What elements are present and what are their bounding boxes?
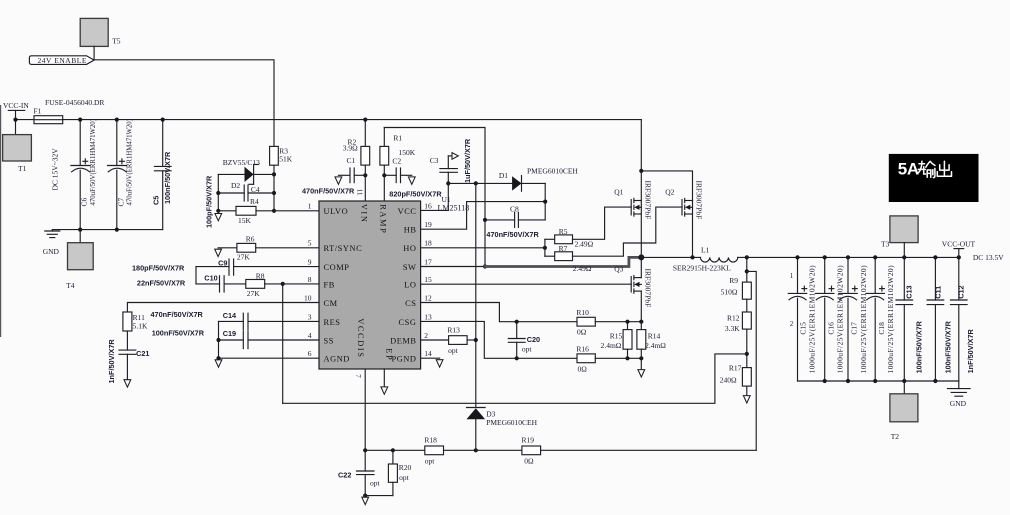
wire R9 divider column	[746, 257, 748, 282]
svg-text:R1: R1	[393, 134, 402, 143]
svg-text:SW: SW	[403, 263, 417, 272]
svg-text:2.4mΩ: 2.4mΩ	[601, 341, 622, 350]
svg-text:R9: R9	[729, 276, 738, 285]
junction C22 bottom	[363, 494, 367, 498]
svg-text:470nF/50V/X7R: 470nF/50V/X7R	[486, 230, 539, 239]
ground GND input	[43, 230, 60, 256]
wire R12 to R17	[746, 329, 748, 368]
ground arrow R6 left	[215, 249, 222, 256]
junction C1 node	[363, 173, 367, 177]
junction C4 left	[216, 191, 220, 195]
svg-text:C12: C12	[957, 285, 966, 298]
capacitor C10	[196, 274, 246, 292]
svg-text:510Ω: 510Ω	[721, 287, 738, 296]
wire AGND pin row	[219, 357, 320, 359]
ground arrow AGND	[215, 360, 222, 367]
junction R14 bottom	[639, 356, 643, 360]
svg-text:EP: EP	[384, 348, 393, 361]
junction VIN column at rail	[363, 118, 367, 122]
junction D3 anode	[474, 448, 478, 452]
transistor Q1 IRF3007PbF	[614, 181, 652, 258]
resistor R4	[218, 197, 274, 225]
svg-text:1uF/50V/X7R: 1uF/50V/X7R	[463, 138, 472, 183]
wire CM pin run	[127, 303, 319, 313]
junction Q3 source / R14 top	[639, 320, 643, 324]
junction C19 left	[216, 338, 220, 342]
svg-text:100nF/50V/X7R: 100nF/50V/X7R	[944, 320, 953, 373]
svg-text:IRF3007PbF: IRF3007PbF	[643, 269, 652, 308]
svg-text:1000uF/25V(ERR1EM102W20): 1000uF/25V(ERR1EM102W20)	[859, 265, 868, 373]
resistor R2	[343, 120, 370, 165]
wire D1 cathode to HB node	[544, 183, 546, 220]
capacitor C14	[219, 311, 320, 330]
svg-text:ULVO: ULVO	[324, 207, 349, 216]
capacitor C21	[107, 331, 150, 384]
wire FB tap run	[283, 354, 747, 403]
pad T4	[66, 230, 93, 290]
svg-text:240Ω: 240Ω	[720, 376, 737, 385]
sheet border fragment	[0, 105, 2, 337]
svg-text:D2: D2	[231, 181, 240, 190]
junction C8 left on SW riser	[483, 218, 487, 222]
capacitor C19	[219, 329, 320, 348]
svg-text:470uF/50V(ERR1HM471W20): 470uF/50V(ERR1HM471W20)	[126, 119, 133, 205]
junction SW node	[638, 254, 644, 260]
svg-text:IRF3007PbF: IRF3007PbF	[643, 181, 652, 220]
pin number labels left	[304, 201, 312, 358]
svg-text:D1: D1	[499, 171, 508, 180]
wire R3 bottom to ULVO node	[273, 165, 275, 211]
resistor R19	[522, 436, 757, 466]
svg-text:DC 15V~32V: DC 15V~32V	[51, 148, 60, 191]
svg-text:VIN: VIN	[360, 204, 369, 224]
junction Q1/Q2 drain split	[639, 169, 643, 173]
junction T2 stem	[902, 379, 906, 383]
ground arrow below R4 bus	[215, 211, 222, 221]
svg-text:R8: R8	[256, 271, 265, 280]
junction L1 output node	[745, 255, 749, 259]
junction C17 bottom	[846, 379, 850, 383]
junction FB tap	[745, 352, 749, 356]
capacitor C3	[421, 138, 472, 210]
svg-text:8: 8	[308, 275, 312, 284]
svg-text:100nF/50V/X7R: 100nF/50V/X7R	[163, 151, 172, 204]
svg-text:VCC-IN: VCC-IN	[3, 101, 29, 110]
svg-text:R6: R6	[246, 235, 255, 244]
diode D1 PMEG6010CEH	[499, 167, 579, 192]
svg-text:VCC-OUT: VCC-OUT	[942, 240, 976, 249]
ground arrow R17	[743, 386, 750, 403]
svg-text:1000uF/25V(ERR1EM102W20): 1000uF/25V(ERR1EM102W20)	[886, 265, 895, 373]
svg-text:DC 13.5V: DC 13.5V	[973, 253, 1004, 262]
svg-text:11: 11	[356, 189, 364, 196]
svg-text:C5: C5	[151, 196, 160, 205]
svg-text:VCC: VCC	[398, 207, 417, 216]
svg-text:R20: R20	[399, 463, 412, 472]
svg-text:3: 3	[308, 312, 312, 321]
svg-text:GND: GND	[950, 399, 967, 408]
svg-text:0Ω: 0Ω	[578, 364, 588, 373]
junction R15 bottom	[625, 356, 629, 360]
svg-text:Q1: Q1	[614, 187, 623, 196]
svg-text:15K: 15K	[238, 216, 252, 225]
svg-text:2.49Ω: 2.49Ω	[573, 264, 592, 273]
wire R2 to VIN pin	[364, 165, 366, 201]
resistor R8	[246, 271, 319, 298]
ground GND output	[948, 381, 971, 408]
resistor R16	[576, 344, 641, 373]
junction C17 top	[846, 255, 850, 259]
svg-text:100nF/50V/X7R: 100nF/50V/X7R	[914, 320, 923, 373]
svg-text:T4: T4	[66, 281, 75, 290]
junction C16 top	[823, 255, 827, 259]
ground arrow PGND	[436, 360, 443, 367]
svg-text:C17: C17	[850, 322, 859, 335]
junction C18 top	[873, 255, 877, 259]
junction C18 bottom	[873, 379, 877, 383]
wire CS pin run	[421, 303, 577, 322]
capacitor C7	[108, 119, 134, 230]
node VCC-IN	[3, 101, 29, 135]
svg-text:DEMB: DEMB	[390, 336, 416, 345]
svg-text:16: 16	[424, 201, 432, 210]
junction VCCDIS row	[363, 448, 367, 452]
ground arrow C21	[124, 380, 131, 387]
junction C15 top	[795, 255, 799, 259]
resistor R10	[576, 308, 641, 336]
resistor R6	[218, 235, 319, 262]
junction C16 bottom	[823, 379, 827, 383]
capacitor C8	[485, 204, 545, 239]
wire R1 bottom to RAMP pin	[383, 165, 385, 201]
svg-text:C21: C21	[136, 349, 149, 358]
node VCC-OUT	[942, 240, 976, 258]
svg-text:0Ω: 0Ω	[577, 328, 587, 337]
ground arrow sense resistors	[638, 358, 645, 377]
svg-text:470uF/50V(ERR1HM471W20): 470uF/50V(ERR1HM471W20)	[90, 119, 97, 205]
svg-text:100nF/50V/X7R: 100nF/50V/X7R	[152, 329, 205, 338]
pad T1	[3, 135, 32, 173]
svg-text:820pF/50V/X7R: 820pF/50V/X7R	[389, 190, 442, 199]
svg-text:2.4mΩ: 2.4mΩ	[645, 341, 666, 350]
svg-text:C13: C13	[905, 285, 914, 298]
svg-text:PMEG6010CEH: PMEG6010CEH	[486, 418, 537, 427]
svg-text:R10: R10	[576, 308, 589, 317]
svg-text:C18: C18	[877, 322, 886, 335]
svg-text:C19: C19	[223, 329, 236, 338]
svg-text:PGND: PGND	[391, 355, 416, 364]
svg-text:HB: HB	[404, 226, 417, 235]
junction C2 node	[382, 173, 386, 177]
svg-text:PMEG6010CEH: PMEG6010CEH	[527, 167, 578, 176]
svg-text:22nF/50V/X7R: 22nF/50V/X7R	[137, 278, 186, 287]
svg-text:5A: 5A	[898, 160, 919, 179]
junction C11 bottom	[933, 379, 937, 383]
junction HB node	[543, 200, 547, 204]
junction C13 top	[902, 255, 906, 259]
svg-text:13: 13	[424, 312, 432, 321]
svg-text:RES: RES	[324, 318, 341, 327]
junction FB node	[281, 282, 285, 286]
junction R15 top	[625, 320, 629, 324]
svg-text:Q2: Q2	[665, 187, 674, 196]
ground arrow C1	[335, 177, 342, 185]
junction C20 bottom	[515, 356, 519, 360]
junction R4 left	[216, 209, 220, 213]
wire D2/C4/R4 left bus	[217, 174, 219, 210]
capacitor C5	[151, 120, 172, 230]
capacitor C18	[866, 257, 895, 381]
junction D2 right	[272, 172, 276, 176]
svg-text:opt: opt	[425, 456, 436, 465]
junction C5 top	[161, 118, 165, 122]
svg-text:C16: C16	[826, 322, 835, 335]
svg-text:F1: F1	[34, 107, 42, 116]
svg-text:GND: GND	[43, 247, 60, 256]
resistor R9	[721, 276, 752, 299]
svg-text:1: 1	[308, 201, 312, 210]
svg-text:1nF/50V/X7R: 1nF/50V/X7R	[966, 328, 975, 373]
svg-text:C3: C3	[430, 156, 439, 165]
svg-text:LM25118: LM25118	[438, 203, 470, 212]
svg-text:R14: R14	[648, 332, 661, 341]
pad T5	[80, 18, 121, 59]
svg-text:10: 10	[304, 293, 312, 302]
svg-text:180pF/50V/X7R: 180pF/50V/X7R	[132, 264, 185, 273]
capacitor C12	[951, 257, 976, 381]
svg-text:opt: opt	[370, 479, 381, 488]
resistor R11	[123, 312, 148, 331]
capacitor C20	[508, 322, 540, 359]
svg-text:R15: R15	[610, 332, 623, 341]
wire R5 to Q1 gate	[573, 207, 632, 239]
svg-text:6: 6	[308, 349, 312, 358]
inductor L1	[673, 245, 738, 272]
svg-text:17: 17	[424, 257, 432, 266]
capacitor C16	[816, 257, 845, 381]
junction C6 bottom	[78, 228, 82, 232]
transistor Q2 IRF3007PbF	[665, 181, 703, 258]
wire D1 anode row	[448, 182, 512, 184]
svg-text:18: 18	[424, 239, 432, 248]
wire bottom row R18/R19	[365, 449, 425, 451]
svg-text:9: 9	[308, 257, 312, 266]
svg-text:R4: R4	[250, 197, 259, 206]
ground arrow C22	[362, 497, 369, 504]
svg-text:1: 1	[790, 272, 794, 280]
svg-text:1nF/50V/X7R: 1nF/50V/X7R	[107, 339, 116, 384]
junction C11 top	[933, 255, 937, 259]
svg-text:R18: R18	[424, 436, 437, 445]
svg-text:LO: LO	[404, 280, 416, 289]
ground arrow C2	[408, 177, 415, 185]
svg-text:19: 19	[424, 220, 432, 229]
resistor R18	[424, 436, 522, 466]
svg-text:HO: HO	[403, 244, 416, 253]
op-amp U1 LM25118 controller body	[319, 201, 421, 369]
pin number labels right	[424, 201, 432, 358]
junction C4 right	[272, 191, 276, 195]
svg-text:L1: L1	[701, 245, 710, 254]
svg-text:470nF/50V/X7R: 470nF/50V/X7R	[151, 310, 204, 319]
resistor R17	[720, 363, 752, 386]
svg-text:C8: C8	[510, 204, 519, 213]
wire R7 to Q2 gate	[573, 207, 683, 256]
svg-text:15: 15	[424, 275, 432, 284]
svg-text:C15: C15	[799, 322, 808, 335]
junction C7 bottom	[115, 228, 119, 232]
wire PGND stub	[421, 357, 440, 359]
svg-text:FUSE-0456040.DR: FUSE-0456040.DR	[45, 98, 104, 107]
pad T3	[881, 216, 918, 258]
zener D2 BZV55/C13	[218, 158, 274, 190]
svg-text:14: 14	[424, 349, 432, 358]
wire main input rail	[16, 119, 35, 121]
svg-text:3.3K: 3.3K	[725, 324, 740, 333]
wire SW to Q2 source / L1	[641, 256, 700, 258]
svg-text:7: 7	[354, 374, 362, 378]
capacitor C11	[927, 257, 953, 381]
capacitor C2	[384, 157, 442, 199]
capacitor C9	[196, 258, 319, 275]
resistor R12	[725, 312, 751, 333]
junction at T1/VCC-IN	[13, 118, 17, 122]
power arrow VCC	[448, 153, 458, 160]
svg-text:SS: SS	[324, 336, 334, 345]
junction C20 top	[515, 320, 519, 324]
svg-text:opt: opt	[522, 345, 533, 354]
svg-text:T3: T3	[881, 240, 890, 249]
resistor R15	[601, 322, 632, 359]
svg-text:R19: R19	[522, 436, 535, 445]
svg-text:C20: C20	[527, 335, 540, 344]
svg-text:RAMP: RAMP	[379, 204, 388, 234]
junction C7 top	[115, 118, 119, 122]
svg-text:IRF3007PbF: IRF3007PbF	[694, 181, 703, 220]
capacitor C17	[839, 257, 868, 381]
svg-text:opt: opt	[448, 346, 459, 355]
svg-text:C22: C22	[338, 470, 351, 479]
svg-text:1000uF/25V(ERR1EM102W20): 1000uF/25V(ERR1EM102W20)	[836, 265, 845, 373]
svg-text:CM: CM	[324, 299, 338, 308]
wire output bottom rail	[798, 380, 959, 382]
resistor R20	[388, 450, 411, 495]
resistor R5	[555, 227, 594, 248]
diode D3 PMEG6010CEH	[467, 408, 538, 451]
svg-text:100pF/50V/X7R: 100pF/50V/X7R	[205, 175, 214, 228]
junction R20 top	[391, 448, 395, 452]
capacitor C6	[71, 119, 97, 230]
junction Q2 source	[690, 255, 694, 259]
svg-text:R5: R5	[559, 227, 568, 236]
svg-text:SER2915H-223KL: SER2915H-223KL	[673, 263, 731, 272]
capacitor C15	[788, 257, 816, 381]
wire SW thick run	[485, 257, 641, 266]
svg-text:R13: R13	[447, 325, 460, 334]
junction SW riser bottom	[483, 264, 487, 268]
svg-text:FB: FB	[324, 280, 335, 289]
svg-text:opt: opt	[399, 473, 410, 482]
capacitor C22	[338, 470, 381, 495]
junction VCC vertical top	[474, 181, 478, 185]
resistor R1	[380, 128, 416, 166]
wire SW pin stub	[421, 266, 485, 268]
svg-text:470nF/50V/X7R: 470nF/50V/X7R	[302, 187, 355, 196]
svg-text:3.9Ω: 3.9Ω	[343, 144, 358, 153]
svg-text:24V ENABLE: 24V ENABLE	[38, 56, 87, 65]
svg-text:C11: C11	[933, 286, 942, 299]
svg-text:2.49Ω: 2.49Ω	[575, 239, 594, 248]
wire R1 top to SW riser	[384, 128, 485, 267]
svg-text:2: 2	[424, 331, 428, 340]
svg-text:CSG: CSG	[399, 318, 417, 327]
wire VCCDIS column	[364, 369, 366, 471]
wire Q2 drain branch	[641, 171, 692, 201]
junction C6 top	[78, 118, 82, 122]
capacitor C13	[896, 257, 923, 381]
fuse F1	[34, 98, 105, 124]
capacitor C1	[302, 156, 365, 195]
wire VCC vertical (D3 feed)	[475, 183, 477, 407]
svg-text:R17: R17	[729, 363, 742, 372]
svg-text:C10: C10	[204, 274, 217, 283]
wire HO pin run	[421, 247, 545, 249]
svg-text:27K: 27K	[237, 252, 251, 261]
pad T2	[890, 381, 918, 441]
svg-text:RT/SYNC: RT/SYNC	[324, 244, 363, 253]
resistor R14	[637, 322, 666, 359]
svg-text:C4: C4	[251, 185, 260, 194]
svg-text:C2: C2	[392, 157, 401, 166]
net flag 24V ENABLE	[29, 56, 94, 65]
svg-text:C9: C9	[218, 258, 227, 267]
wire FB vertical	[282, 284, 284, 403]
wire rail down to Q1 drain	[640, 120, 642, 201]
junction R19 branch	[745, 269, 749, 273]
wire rail after fuse	[63, 119, 642, 121]
svg-text:C1: C1	[347, 156, 356, 165]
svg-text:5.1K: 5.1K	[133, 322, 148, 331]
svg-text:T1: T1	[18, 164, 27, 173]
wire ULVO pin 1	[274, 210, 319, 212]
transistor Q3 IRF3007PbF	[614, 257, 652, 321]
junction R4 right	[272, 209, 276, 213]
ground arrow EP	[381, 387, 388, 394]
svg-text:51K: 51K	[279, 155, 293, 164]
svg-text:4: 4	[308, 331, 312, 340]
callout box 5A output	[889, 154, 979, 202]
svg-text:27K: 27K	[247, 289, 260, 298]
wire CSG pin run	[421, 321, 577, 358]
svg-text:COMP: COMP	[324, 263, 350, 272]
svg-text:0Ω: 0Ω	[524, 456, 534, 465]
svg-text:C6: C6	[80, 197, 89, 206]
wire 24V enable run	[94, 60, 274, 147]
svg-text:R16: R16	[576, 344, 589, 353]
wire bottom input rail	[52, 229, 162, 231]
wire R9 to R12	[746, 299, 748, 312]
svg-text:R12: R12	[727, 314, 740, 323]
svg-text:C7: C7	[116, 197, 125, 206]
capacitor C4	[218, 185, 274, 201]
svg-text:1000uF/25V(ERR1EM102W20): 1000uF/25V(ERR1EM102W20)	[808, 265, 817, 373]
svg-text:C14: C14	[223, 311, 237, 320]
junction C12 top / VCC-OUT	[957, 255, 961, 259]
junction C3 bottom / D1 anode	[446, 181, 450, 185]
junction R13 to VCC vertical	[474, 338, 478, 342]
svg-text:BZV55/C13: BZV55/C13	[223, 158, 260, 167]
svg-text:12: 12	[424, 293, 432, 302]
